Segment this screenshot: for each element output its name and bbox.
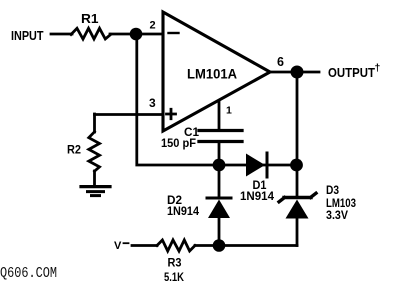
svg-text:OUTPUT: OUTPUT (328, 65, 375, 80)
svg-text:1: 1 (226, 105, 232, 117)
svg-text:R1: R1 (81, 11, 99, 26)
svg-text:LM101A: LM101A (187, 67, 237, 82)
svg-text:150 pF: 150 pF (161, 138, 196, 150)
svg-text:C1: C1 (184, 125, 199, 139)
svg-text:†: † (375, 62, 381, 74)
svg-text:3.3V: 3.3V (326, 208, 348, 222)
svg-text:2: 2 (150, 20, 156, 32)
svg-text:Q606.COM: Q606.COM (0, 265, 57, 282)
svg-text:R2: R2 (67, 143, 81, 157)
svg-text:1N914: 1N914 (167, 206, 200, 218)
svg-text:V: V (114, 240, 122, 252)
svg-text:6: 6 (277, 55, 284, 69)
svg-text:R3: R3 (168, 256, 182, 270)
svg-text:3: 3 (149, 96, 156, 110)
svg-text:INPUT: INPUT (11, 29, 44, 43)
svg-text:1N914: 1N914 (240, 189, 274, 203)
svg-text:D3: D3 (326, 183, 339, 197)
svg-text:5.1K: 5.1K (164, 270, 184, 282)
svg-text:D2: D2 (167, 193, 182, 207)
